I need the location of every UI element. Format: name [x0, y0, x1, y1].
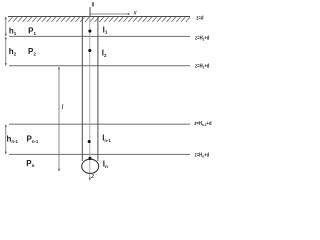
svg-text:z: z — [90, 174, 94, 180]
source point layer 2 — [88, 49, 91, 52]
dimension line h1 — [5, 17, 7, 37]
depth label z=H2+d — [195, 63, 209, 70]
depth label z=d — [196, 15, 203, 22]
depth label z=Hn+d — [195, 152, 210, 159]
source point layer 1 — [88, 29, 91, 32]
z axis center line — [89, 17, 91, 179]
layer interface line n (z=Hn+d) — [9, 153, 190, 155]
pile tip ball — [82, 159, 99, 173]
depth label z=H1+d — [195, 35, 209, 42]
dimension line h2 — [5, 37, 7, 66]
svg-text:z=H2+d: z=H2+d — [195, 63, 209, 70]
ground surface line — [8, 16, 190, 18]
ground hatching — [8, 17, 190, 22]
pile length dimension line l — [58, 67, 60, 172]
svg-text:z=Hn+d: z=Hn+d — [195, 152, 210, 159]
source point layer n-1 — [88, 140, 91, 143]
dimension line hn-1 — [5, 124, 7, 154]
layer interface line 2 (z=H2+d) — [9, 65, 190, 67]
origin tick mark — [92, 2, 93, 6]
layer interface line 1 (z=H1+d) — [9, 35, 190, 37]
svg-text:x: x — [132, 10, 137, 17]
depth label z=Hn-1+d — [194, 120, 211, 127]
x axis arrowhead — [128, 13, 131, 15]
z axis stub above ground — [89, 7, 91, 16]
svg-text:z=H1+d: z=H1+d — [195, 35, 209, 42]
layer interface line n-1 (z=Hn-1+d) — [9, 123, 190, 125]
svg-text:z=d: z=d — [196, 15, 203, 22]
pile left edge — [81, 17, 83, 162]
pile right edge — [97, 17, 99, 162]
z axis arrowhead — [89, 178, 91, 181]
x axis — [90, 13, 129, 15]
source point pile tip — [88, 157, 91, 160]
